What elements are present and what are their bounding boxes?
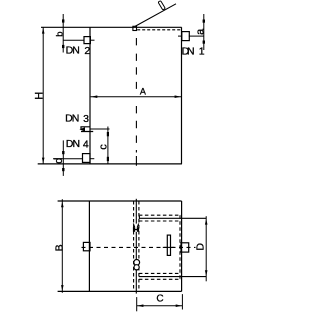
slot centerline solid segment: [163, 246, 175, 248]
hidden top edge (dashed): [137, 29, 181, 31]
C arrow left: [137, 304, 143, 307]
inner box top hidden lines: [139, 214, 182, 216]
tank left wall: [89, 27, 91, 164]
nozzle DN3 (mid-left wall): [81, 127, 93, 132]
svg-text:4: 4: [83, 139, 89, 151]
bottom hidden fitting: [134, 260, 140, 266]
dimension C extension lines: [136, 297, 138, 311]
vertical centerline (dashed): [135, 38, 137, 166]
dimension H line: [42, 27, 44, 164]
C arrow right: [176, 304, 182, 307]
inner box top solid line: [139, 217, 206, 219]
top center fitting square: [133, 26, 137, 30]
partition hidden line left: [133, 201, 135, 291]
A arrow left: [91, 95, 97, 98]
dimension b marks: [62, 19, 64, 22]
dimension c line: [107, 127, 109, 164]
DN2 centerline stubs: [63, 39, 84, 41]
dimension C line: [137, 305, 183, 307]
svg-text:D: D: [194, 243, 206, 251]
D arrow bottom: [205, 270, 208, 276]
tick at solid line start: [138, 216, 140, 219]
dimension D line: [205, 216, 207, 281]
leader line: [135, 4, 176, 27]
svg-text:A: A: [140, 87, 146, 97]
plan left nozzle: [83, 242, 90, 250]
svg-text:DN: DN: [182, 45, 195, 57]
dimension c marks: [107, 132, 109, 136]
plan top line (with left extension): [58, 200, 182, 202]
dimension d marks: [62, 151, 64, 154]
svg-text:3: 3: [83, 113, 89, 125]
H arrow top: [42, 28, 45, 34]
H arrow bottom: [42, 158, 45, 164]
dimension b line: [62, 14, 64, 53]
nozzle DN1 (top-right wall): [182, 32, 190, 41]
svg-text:DN: DN: [66, 138, 80, 150]
dimension a marks: [203, 20, 205, 23]
dimension B line: [61, 199, 63, 293]
tank top line (with left extension): [41, 26, 182, 28]
plan right wall: [181, 201, 183, 291]
plan right nozzle: [181, 243, 189, 252]
svg-text:1: 1: [199, 45, 205, 57]
svg-text:b: b: [54, 32, 65, 37]
svg-text:H: H: [33, 92, 45, 100]
svg-text:C: C: [156, 294, 163, 305]
internal slot: [167, 235, 170, 255]
svg-text:d: d: [53, 158, 65, 164]
inner box right hidden line: [179, 215, 181, 279]
DN3 centerline stub: [90, 128, 110, 130]
D arrow top: [205, 219, 208, 225]
tank bottom line (with left extension): [38, 163, 182, 165]
partition center seam (solid): [135, 199, 137, 294]
leader flag: [158, 1, 165, 10]
svg-text:B: B: [54, 244, 66, 251]
svg-text:a: a: [194, 28, 206, 35]
B arrow bottom: [61, 285, 64, 291]
svg-text:DN: DN: [66, 45, 80, 57]
plan left wall: [88, 201, 90, 291]
nozzle DN2 (top-left wall): [84, 37, 90, 44]
top hidden fitting: [135, 224, 137, 232]
svg-text:2: 2: [84, 45, 90, 57]
dimension a line: [203, 14, 205, 50]
dimension d line: [62, 140, 64, 176]
DN3 arrow: [79, 127, 85, 131]
inner box bottom solid line: [139, 276, 206, 278]
DN1 centerline stubs: [178, 35, 182, 37]
nozzle DN4 (bottom-left wall): [83, 154, 91, 163]
B arrow top: [61, 202, 64, 208]
svg-text:DN: DN: [65, 113, 79, 125]
partition hidden line right: [138, 201, 140, 291]
tank right wall: [181, 27, 183, 164]
A arrow right: [175, 95, 181, 98]
inner box bottom hidden lines: [139, 272, 182, 274]
DN4 centerline stubs: [53, 158, 83, 160]
dimension A line: [91, 96, 182, 98]
svg-text:c: c: [97, 144, 109, 150]
plan horizontal centerline (dashed): [82, 246, 196, 248]
plan bottom line (with left extension): [58, 290, 182, 292]
